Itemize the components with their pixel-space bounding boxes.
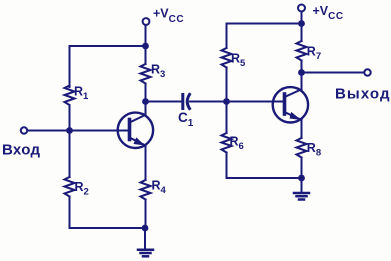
resistor R8 <box>297 138 307 158</box>
wire top horizontal stage1 <box>70 45 146 47</box>
transistor Q2 <box>273 87 308 122</box>
node input junction <box>66 127 73 134</box>
wire capacitor to node2 <box>190 101 227 103</box>
node ground1 junction <box>142 225 149 232</box>
svg-text:R8: R8 <box>307 141 321 159</box>
terminal Vcc1 <box>143 18 150 25</box>
svg-text:Выход: Выход <box>335 86 391 103</box>
capacitor C1 <box>183 95 190 109</box>
node C1/R5/R6 junction <box>223 98 230 105</box>
terminal Vcc2 <box>298 5 305 12</box>
svg-text:Вход: Вход <box>2 142 40 159</box>
svg-text:+VCC: +VCC <box>313 4 344 22</box>
wire T2 emitter down <box>301 120 303 138</box>
wire ground1 stem <box>144 228 146 249</box>
svg-text:R2: R2 <box>75 180 89 198</box>
svg-text:R4: R4 <box>152 179 167 197</box>
resistor R2 <box>65 177 75 197</box>
ground GND2 <box>294 193 309 200</box>
wire R3 bottom to node <box>145 84 147 102</box>
resistor R4 <box>141 180 151 200</box>
wire R5 column top corner <box>226 24 228 49</box>
wire R8 bottom <box>301 158 303 179</box>
svg-text:C1: C1 <box>178 110 194 129</box>
terminal output <box>364 69 370 75</box>
resistor R5 <box>222 48 232 68</box>
node ground2 junction <box>298 175 305 182</box>
ground GND1 <box>138 250 153 256</box>
wire Vcc1 vertical <box>145 25 147 46</box>
resistor R6 <box>222 133 232 153</box>
node collector1/C1 junction <box>142 98 149 105</box>
wire R3 top <box>145 46 147 64</box>
wire R1 to input node <box>69 107 71 178</box>
resistor R7 <box>297 41 307 61</box>
svg-text:R3: R3 <box>151 63 165 81</box>
wire node to capacitor <box>146 101 182 103</box>
wire R2 bottom <box>69 197 71 229</box>
node Vcc1 junction <box>142 43 149 50</box>
wire R6 bottom <box>226 153 228 179</box>
resistor R1 <box>65 86 75 106</box>
wire Vcc2 vertical <box>301 11 303 41</box>
wire R1 column upper <box>69 46 71 87</box>
wire output horizontal <box>302 72 365 74</box>
svg-text:R6: R6 <box>230 135 244 153</box>
wire bottom horizontal stage1 <box>70 227 146 229</box>
wire R5 bottom <box>226 68 228 134</box>
wire top horizontal stage2 <box>227 23 302 25</box>
wire input horizontal <box>28 130 130 132</box>
svg-text:R7: R7 <box>307 45 321 63</box>
wire node2 to T2 base <box>227 101 285 103</box>
terminal input <box>21 127 27 133</box>
transistor Q1 <box>118 102 153 181</box>
wire ground2 stem <box>301 178 303 193</box>
wire R7 bottom to collector <box>301 61 303 90</box>
svg-text:+VCC: +VCC <box>153 7 184 26</box>
node Vcc2 junction <box>298 20 305 27</box>
wire bottom horizontal stage2 <box>227 177 302 179</box>
wire R4 bottom <box>145 200 147 229</box>
svg-text:R1: R1 <box>74 85 89 103</box>
resistor R3 <box>141 64 151 84</box>
node output junction <box>298 69 305 76</box>
svg-text:R5: R5 <box>231 52 246 70</box>
